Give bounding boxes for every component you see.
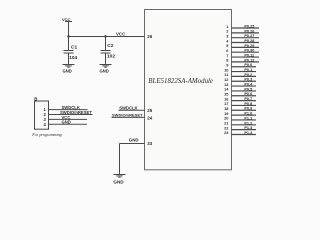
svg-text:P0.30: P0.30	[244, 49, 254, 53]
svg-text:P1.0: P1.0	[244, 112, 252, 116]
svg-text:P1.1: P1.1	[244, 116, 252, 120]
svg-text:VCC: VCC	[116, 31, 126, 36]
svg-text:SWDCLK: SWDCLK	[119, 106, 137, 111]
svg-text:33: 33	[147, 141, 152, 146]
svg-text:P0.7: P0.7	[244, 97, 252, 101]
svg-text:P0.28: P0.28	[244, 39, 254, 43]
svg-text:C1: C1	[71, 45, 77, 51]
svg-text:P0.26: P0.26	[244, 29, 254, 33]
svg-text:SWDIO/nRESET: SWDIO/nRESET	[112, 113, 143, 118]
svg-text:GND: GND	[63, 68, 72, 73]
svg-text:C2: C2	[107, 43, 113, 49]
svg-text:P0.29: P0.29	[244, 44, 254, 48]
svg-text:GND: GND	[129, 137, 139, 142]
svg-text:For programming: For programming	[31, 132, 62, 137]
svg-text:P0.9: P0.9	[244, 107, 252, 111]
svg-text:VCC: VCC	[62, 17, 71, 22]
svg-text:GND: GND	[113, 180, 124, 185]
svg-text:P0.1: P0.1	[244, 68, 252, 72]
svg-text:P0.3: P0.3	[244, 78, 252, 82]
svg-text:24: 24	[147, 116, 152, 121]
svg-text:P0.25: P0.25	[244, 24, 254, 28]
svg-text:BLE51822SA-AModule: BLE51822SA-AModule	[148, 78, 213, 85]
svg-text:P0.6: P0.6	[244, 92, 252, 96]
svg-text:P0.4: P0.4	[244, 83, 253, 87]
svg-text:GND: GND	[100, 68, 109, 73]
svg-text:P0.8: P0.8	[244, 102, 252, 106]
svg-text:P0.12: P0.12	[244, 58, 254, 62]
svg-text:P1.2: P1.2	[244, 121, 252, 125]
svg-text:P0.27: P0.27	[244, 34, 254, 38]
svg-text:102: 102	[107, 54, 115, 60]
svg-text:25: 25	[147, 108, 152, 113]
svg-text:P1.4: P1.4	[244, 131, 253, 135]
svg-text:P0.5: P0.5	[244, 87, 252, 91]
svg-text:P0.0: P0.0	[244, 63, 252, 67]
svg-text:104: 104	[69, 55, 77, 61]
svg-text:B: B	[34, 97, 37, 102]
svg-text:GND: GND	[62, 120, 71, 125]
svg-text:P0.11: P0.11	[244, 53, 254, 57]
svg-text:P1.3: P1.3	[244, 126, 252, 130]
svg-text:P0.2: P0.2	[244, 73, 252, 77]
svg-text:26: 26	[147, 34, 152, 39]
